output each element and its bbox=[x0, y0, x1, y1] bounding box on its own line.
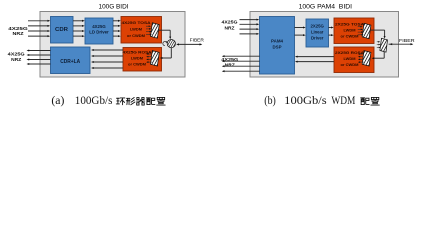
svg-text:Linear: Linear bbox=[311, 30, 324, 35]
svg-text:4X25G: 4X25G bbox=[92, 24, 106, 29]
svg-text:PAM4: PAM4 bbox=[271, 38, 283, 43]
svg-text:4X25G TOSA: 4X25G TOSA bbox=[122, 21, 151, 25]
svg-text:NRZ: NRZ bbox=[225, 63, 235, 68]
svg-text:LWDM: LWDM bbox=[344, 57, 356, 61]
svg-text:100Gb/s: 100Gb/s bbox=[75, 95, 113, 107]
svg-text:NRZ: NRZ bbox=[225, 25, 235, 30]
svg-text:FIBER: FIBER bbox=[190, 37, 205, 42]
svg-text:2X25G TOSA: 2X25G TOSA bbox=[335, 22, 364, 26]
svg-text:WDM: WDM bbox=[331, 95, 355, 107]
svg-text:4X25G: 4X25G bbox=[8, 51, 26, 56]
svg-text:Driver: Driver bbox=[311, 36, 324, 41]
svg-text:or CWDM: or CWDM bbox=[341, 63, 359, 67]
svg-text:4X25G: 4X25G bbox=[8, 26, 28, 31]
svg-text:or CWDM: or CWDM bbox=[341, 34, 359, 38]
svg-text:4X25G: 4X25G bbox=[222, 20, 239, 25]
svg-text:(a): (a) bbox=[51, 95, 64, 107]
svg-text:DSP: DSP bbox=[273, 44, 282, 49]
svg-text:LWDM: LWDM bbox=[130, 28, 142, 32]
svg-text:(b): (b) bbox=[264, 95, 276, 107]
svg-text:2X25G: 2X25G bbox=[310, 24, 324, 29]
svg-text:FIBER: FIBER bbox=[399, 38, 415, 43]
svg-text:or CWDM: or CWDM bbox=[127, 34, 145, 38]
svg-text:100G PAM4 BIDI: 100G PAM4 BIDI bbox=[299, 4, 353, 11]
svg-text:LWDM: LWDM bbox=[131, 56, 143, 60]
svg-text:100Gb/s: 100Gb/s bbox=[284, 95, 326, 107]
svg-text:LD Driver: LD Driver bbox=[89, 30, 109, 35]
svg-text:NRZ: NRZ bbox=[11, 57, 21, 62]
svg-text:100G BIDI: 100G BIDI bbox=[99, 4, 129, 11]
svg-text:CDR: CDR bbox=[55, 27, 68, 33]
svg-text:LWDM: LWDM bbox=[344, 28, 356, 32]
svg-text:NRZ: NRZ bbox=[13, 31, 24, 36]
svg-text:or CWDM: or CWDM bbox=[128, 62, 146, 66]
svg-text:CDR+LA: CDR+LA bbox=[60, 59, 80, 65]
